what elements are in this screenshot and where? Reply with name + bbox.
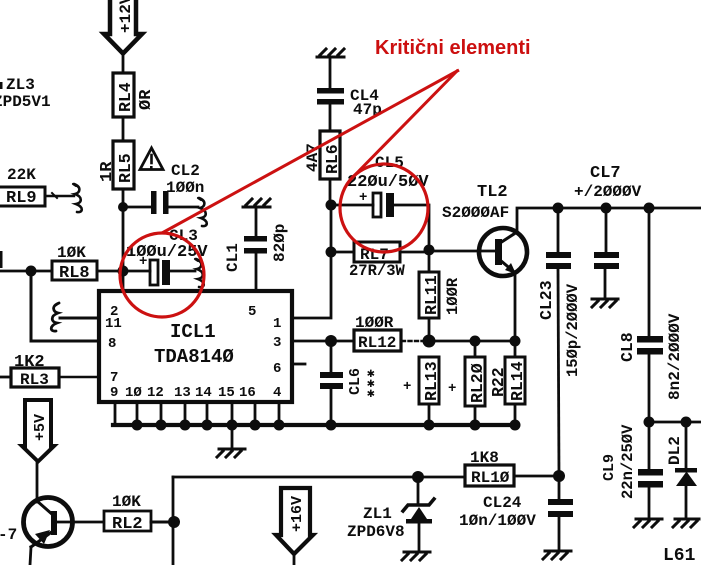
svg-text:5: 5 [248, 304, 256, 320]
wire ground to CL4 [329, 58, 332, 89]
node O junction [412, 471, 424, 483]
svg-text:1Øn/1ØØV: 1Øn/1ØØV [459, 512, 536, 530]
resistor RL12 value 100R [354, 314, 401, 352]
svg-text:✱: ✱ [367, 386, 375, 401]
wire CL23 down to node P [558, 269, 559, 476]
wire +12V arrow to RL4 [122, 56, 125, 74]
svg-text:RL11: RL11 [422, 275, 441, 315]
capacitor CL6 [320, 366, 375, 401]
resistor R11 RL11 value 100R [419, 272, 462, 318]
wire node D to node E [330, 205, 333, 252]
wire CL5 to node F [394, 205, 429, 250]
capacitor CL7 body [594, 252, 619, 269]
svg-text:7: 7 [110, 370, 118, 386]
wire left edge to RL8 [0, 270, 52, 273]
capacitor CL8 value 8n2/2000V [618, 313, 684, 400]
dashed wire RL12 to node K [402, 340, 429, 342]
svg-text:RL13: RL13 [422, 361, 441, 401]
resistor RL4 [113, 73, 156, 117]
node S junction [168, 516, 180, 528]
svg-text:1ØØn: 1ØØn [166, 179, 204, 197]
node I junction [644, 203, 655, 214]
op-amp U1 ICL1 TDA8140 body [99, 291, 292, 402]
wire Q1 emitter to bottom edge [30, 547, 31, 565]
svg-text:ZPD5V1: ZPD5V1 [0, 93, 51, 111]
svg-text:4: 4 [273, 385, 281, 401]
svg-text:1ØK: 1ØK [112, 493, 141, 511]
svg-text:TDA814Ø: TDA814Ø [154, 346, 234, 368]
svg-text:RL14: RL14 [508, 361, 527, 401]
svg-text:+/2ØØØV: +/2ØØØV [574, 183, 642, 201]
capacitor CL2 value 100n [151, 162, 204, 214]
transistor Q1 [24, 498, 73, 548]
power arrow +5V [22, 400, 54, 462]
node J junction [325, 335, 337, 347]
yoke arrow at pin 11 [51, 303, 59, 331]
wire node E down to pin 1 [293, 252, 331, 318]
wire node F to TL2 base [429, 250, 496, 253]
svg-text:ZL1: ZL1 [363, 505, 392, 523]
wire RL11 to node K [428, 318, 431, 341]
ground below CL9 [634, 519, 662, 527]
node A junction [118, 202, 128, 212]
wire CL8 down to node Q [648, 355, 651, 422]
pin 12 stub [160, 402, 163, 424]
resistor RL7 value 27R/3W [349, 242, 406, 280]
wire RL9 to yoke arrow [45, 195, 74, 197]
node H junction [601, 203, 612, 214]
ground below CL7 [592, 299, 618, 307]
node K junction [423, 335, 436, 348]
pin 6 stub [293, 363, 305, 366]
svg-text:S2ØØØAF: S2ØØØAF [442, 204, 509, 222]
node B junction [118, 266, 129, 277]
yoke arrow right of CL3 [195, 259, 204, 287]
pin 14 stub [206, 402, 209, 424]
wire ground to CL1 [255, 208, 258, 237]
wire node A to CL2 [123, 206, 151, 209]
ground below ZL1 [402, 552, 430, 560]
node Q junction [644, 417, 655, 428]
svg-text:+5V: +5V [32, 414, 49, 441]
wire RL4 to RL5 [122, 117, 125, 142]
svg-text:82Øp: 82Øp [271, 224, 289, 262]
svg-text:CL23: CL23 [537, 280, 556, 320]
svg-text:ZPD6V8: ZPD6V8 [347, 523, 405, 541]
pin 15 stub [231, 402, 234, 424]
wire CL3 to yoke arrow [170, 270, 195, 273]
wire node G to CL23 [557, 208, 560, 252]
wire node A to node B [122, 207, 125, 271]
svg-text:RL3: RL3 [20, 371, 49, 389]
svg-text:RL9: RL9 [6, 189, 37, 208]
red circle around CL5 [340, 164, 428, 252]
node C junction [26, 266, 37, 277]
wire node L to RL20 [474, 341, 477, 357]
wire CL7 to ground [604, 269, 607, 298]
resistor RL8 value 10K [52, 244, 97, 283]
cut glyph at left edge [0, 251, 3, 268]
wire CL4 to RL6 [329, 105, 332, 132]
wire RL2 to node S [151, 521, 174, 524]
wire RL7 to node F [400, 251, 429, 254]
node M junction [510, 336, 521, 347]
resistor RL2 value 10K [104, 493, 151, 534]
wire +5V to Q1 collector [36, 463, 39, 502]
ground bus under ICL1 [113, 423, 516, 427]
svg-text:CL7: CL7 [590, 164, 621, 183]
wire RL3 to pin 7 [59, 376, 99, 378]
svg-text:CL9: CL9 [601, 454, 618, 481]
svg-text:CL24: CL24 [483, 494, 522, 512]
svg-text:8n2/2ØØØV: 8n2/2ØØØV [666, 313, 684, 400]
pin 16 stub [254, 402, 257, 424]
svg-text:RL2Ø: RL2Ø [468, 363, 487, 403]
wire +16V tip to bottom edge [293, 556, 296, 565]
wire node Q to node R [649, 421, 701, 424]
svg-text:13: 13 [174, 385, 191, 401]
wire node J to CL6 [330, 341, 333, 372]
svg-text:RL5: RL5 [116, 153, 135, 183]
wire RL8 to node B [97, 270, 123, 273]
wire CL9 to ground [648, 488, 651, 518]
svg-text:ICL1: ICL1 [170, 321, 216, 343]
wire CL2 to yoke arrow [168, 206, 198, 209]
svg-text:9: 9 [110, 385, 118, 401]
svg-text:CL6: CL6 [347, 368, 364, 395]
resistor R22 RL14 [489, 357, 527, 404]
wire vertical through node S [172, 477, 175, 565]
svg-text:1R: 1R [98, 161, 117, 182]
ground stem below bus [231, 427, 234, 448]
svg-text:DL2: DL2 [666, 436, 684, 465]
yoke arrow right of RL9 [73, 184, 82, 212]
svg-text:L61: L61 [663, 546, 696, 565]
red callout line to CL5 [350, 70, 458, 180]
capacitor CL9 value 22n/250V [601, 424, 663, 499]
svg-text:ØR: ØR [137, 89, 156, 110]
capacitor CL7 label +/2000V [574, 164, 642, 201]
wire pin 11 to yoke arrow [60, 317, 99, 320]
wire RL10 to node P [514, 475, 559, 478]
svg-text:12: 12 [147, 385, 164, 401]
red circle around CL3 [120, 233, 204, 317]
wire RL6 to node D [329, 179, 332, 205]
ground below ICL1 bus [217, 449, 245, 457]
svg-text:1Ø: 1Ø [125, 385, 142, 401]
svg-text:+16V: +16V [289, 496, 306, 532]
resistor RL20 [448, 357, 487, 406]
svg-text:+: + [403, 379, 411, 395]
node D junction [326, 200, 337, 211]
warning triangle [140, 148, 163, 170]
resistor RL6 value 4A7 [304, 131, 342, 179]
ground above CL1 [243, 199, 270, 207]
svg-text:CL1: CL1 [224, 243, 242, 272]
node E junction [326, 247, 337, 258]
node F junction [424, 245, 435, 256]
capacitor CL5 electrolytic 220u/50V [347, 154, 429, 217]
svg-text:CL2: CL2 [171, 162, 200, 180]
wire Q1 base to RL2 [56, 521, 104, 524]
wire node P to CL24 [558, 476, 561, 499]
resistor RL13 [403, 357, 441, 404]
wire node I down to CL8 [648, 208, 651, 337]
wire RL5 to node A [122, 189, 125, 207]
pin 10 stub [136, 402, 139, 424]
ground above CL4 [317, 49, 344, 57]
wire TL2 emitter down to node M [514, 273, 517, 341]
resistor RL5 [98, 141, 135, 189]
resistor RL3 value 1K2 [11, 353, 59, 389]
svg-text:1: 1 [273, 316, 281, 332]
capacitor CL24 value 10n/100V [459, 494, 573, 530]
power arrow +16V [276, 488, 313, 554]
wire RL13 to bus [428, 404, 431, 425]
svg-text:6: 6 [273, 361, 281, 377]
svg-text:RL6: RL6 [323, 144, 342, 174]
svg-text:27R/3W: 27R/3W [349, 262, 406, 280]
svg-text:11: 11 [105, 316, 122, 332]
wire TL2 collector up to rail [517, 208, 701, 232]
wire node C down to pin 8 [31, 271, 99, 341]
transistor TL2 S2000AF [442, 183, 527, 276]
svg-text:15: 15 [218, 385, 235, 401]
capacitor CL23 value 150p/2000V [537, 252, 582, 377]
svg-text:RL8: RL8 [59, 264, 90, 283]
wire left edge to RL3 [0, 376, 11, 379]
svg-text:RL2: RL2 [112, 515, 143, 534]
svg-text:CL8: CL8 [618, 332, 637, 362]
node L junction [470, 336, 481, 347]
pin 9 stub [114, 402, 117, 424]
svg-text:+: + [448, 381, 456, 397]
svg-text:15Øp/2ØØØV: 15Øp/2ØØØV [564, 283, 582, 377]
svg-text:22n/25ØV: 22n/25ØV [619, 424, 637, 499]
node P junction [553, 470, 565, 482]
node R junction [681, 417, 692, 428]
ground below CL24 [543, 551, 571, 559]
svg-text:Kritični elementi: Kritični elementi [375, 37, 531, 59]
svg-text:16: 16 [239, 385, 256, 401]
wire CL6 to bus [330, 389, 333, 425]
svg-text:RL12: RL12 [358, 334, 396, 352]
resistor RL9 value 22K [0, 166, 45, 208]
resistor RL10 value 1K8 [465, 449, 514, 487]
zener ZL1 ZPD6V8 [347, 477, 434, 551]
svg-text:+: + [139, 254, 147, 270]
svg-text:1ØK: 1ØK [57, 244, 86, 262]
capacitor CL3 electrolytic 100u/25V [126, 227, 208, 285]
wire node Q to CL9 [648, 422, 651, 469]
bus junction dots [132, 420, 521, 431]
node G junction [553, 203, 564, 214]
wire CL1 to ICL1 pin 5 [255, 253, 258, 292]
wire node E to RL7 [331, 251, 354, 254]
svg-text:8: 8 [108, 336, 116, 352]
wire pin 3 to RL12 [293, 340, 354, 343]
diode DL2 [666, 422, 697, 518]
pin 13 stub [184, 402, 187, 424]
wire RL20 to bus [474, 406, 477, 425]
wire RL14 to bus [514, 404, 517, 425]
zener ZL3 label [0, 76, 51, 111]
wire tick [52, 193, 57, 198]
svg-text:TL2: TL2 [477, 183, 508, 202]
svg-text:RL1Ø: RL1Ø [471, 469, 510, 487]
svg-text:+12V: +12V [117, 0, 135, 33]
wire node F to RL11 [428, 250, 431, 272]
capacitor CL1 value 820p [224, 224, 289, 272]
svg-text:14: 14 [195, 385, 212, 401]
power arrow +12V [104, 0, 142, 54]
svg-text:ZL3: ZL3 [6, 76, 35, 94]
ground below DL2 [673, 519, 699, 527]
wire node M to RL14 [514, 341, 517, 357]
svg-text:3: 3 [273, 335, 281, 351]
wire feedback rail y476 [173, 476, 465, 479]
capacitor CL4 value 47p [317, 87, 382, 119]
pin 4 stub [278, 402, 281, 424]
wire node H to CL7 [605, 208, 608, 252]
wire node B down to ICL1 pin 2 [122, 271, 125, 292]
wire CL24 to ground [558, 517, 561, 550]
wire node B to CL3 [123, 270, 150, 273]
wire node D to CL5 [331, 204, 373, 207]
svg-text:-7: -7 [0, 526, 17, 544]
svg-text:RL4: RL4 [116, 82, 135, 112]
svg-text:22K: 22K [7, 166, 36, 184]
svg-text:1ØØR: 1ØØR [444, 277, 462, 315]
wire node K to node M [429, 340, 515, 343]
red callout line to CL3 [162, 70, 459, 233]
yoke arrow right of CL2 [198, 198, 207, 226]
